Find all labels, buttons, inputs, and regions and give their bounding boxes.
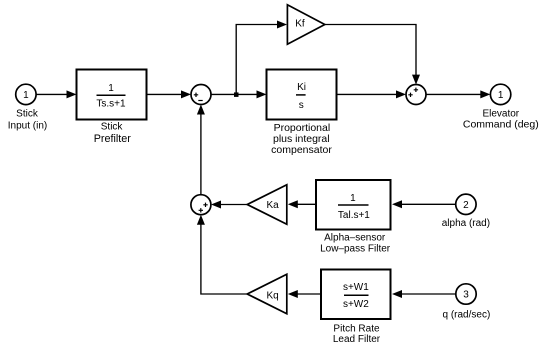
sum junction S1 (+ left, - bottom) xyxy=(191,85,211,105)
svg-text:Tal.s+1: Tal.s+1 xyxy=(338,210,370,221)
svg-text:s+W2: s+W2 xyxy=(343,299,369,310)
svg-text:Kq: Kq xyxy=(266,290,278,301)
wire: Ki/s to sum2 xyxy=(337,90,407,98)
svg-text:Lead Filter: Lead Filter xyxy=(333,334,381,345)
wire: sum2 to output port xyxy=(426,90,490,98)
wire: branch up to Kf gain xyxy=(236,21,287,95)
gain Ka (triangle pointing left) xyxy=(247,185,287,224)
block: Ki/s Proportional plus integral compensator xyxy=(267,70,337,156)
svg-text:Ki: Ki xyxy=(297,82,306,93)
input port 2 "alpha (rad)" xyxy=(442,194,490,229)
wire: port1 to Stick Prefilter xyxy=(36,90,76,98)
svg-text:1: 1 xyxy=(350,193,356,204)
input port 3 "q (rad/sec)" xyxy=(443,284,491,321)
sum junction S2 (+ top, + left) xyxy=(406,85,426,105)
svg-text:Low–pass Filter: Low–pass Filter xyxy=(320,244,391,255)
gain Kf (triangle pointing right) xyxy=(287,5,324,44)
svg-text:Command (deg): Command (deg) xyxy=(463,119,539,131)
block: Alpha-sensor Low-pass Filter 1/(Tal.s+1) xyxy=(316,180,391,255)
sum junction S3 (+ right, + bottom) xyxy=(191,195,211,215)
wire: Ka to sum3 xyxy=(211,201,247,209)
wire: sum1 to Ki/s block xyxy=(211,90,267,98)
svg-text:s: s xyxy=(299,100,304,111)
svg-text:Ka: Ka xyxy=(266,200,279,211)
svg-text:1: 1 xyxy=(23,90,29,101)
svg-text:s+W1: s+W1 xyxy=(343,282,369,293)
block: Stick Prefilter 1/(Ts.s+1) xyxy=(77,70,147,146)
wire: Pitch Rate block to Kq xyxy=(288,290,321,298)
svg-text:2: 2 xyxy=(463,200,469,211)
svg-text:Alpha–sensor: Alpha–sensor xyxy=(324,232,386,243)
svg-text:alpha (rad): alpha (rad) xyxy=(442,218,490,229)
gain Kq (triangle pointing left) xyxy=(247,274,287,313)
svg-text:Pitch Rate: Pitch Rate xyxy=(333,324,380,335)
wire: port3 to Pitch Rate block xyxy=(392,290,456,298)
wire: Kf to sum2 (right, then down) xyxy=(325,25,420,85)
wire: sum3 up to sum1 xyxy=(197,105,205,195)
wire: Kq left then up to sum3 xyxy=(197,215,247,294)
svg-text:Kf: Kf xyxy=(295,19,305,30)
svg-text:1: 1 xyxy=(108,83,114,94)
svg-text:3: 3 xyxy=(463,290,469,301)
svg-text:Prefilter: Prefilter xyxy=(94,133,132,145)
svg-text:Ts.s+1: Ts.s+1 xyxy=(96,99,126,110)
svg-text:Stick: Stick xyxy=(16,109,39,120)
svg-text:q (rad/sec): q (rad/sec) xyxy=(443,310,491,321)
svg-text:Input (in): Input (in) xyxy=(8,121,47,132)
block: Pitch Rate Lead Filter (s+W1)/(s+W2) xyxy=(321,270,391,346)
wire: Alpha-sensor block to Ka xyxy=(288,200,316,208)
output port 1 "Elevator Command (deg)" xyxy=(463,84,539,130)
svg-text:Stick: Stick xyxy=(101,122,124,133)
svg-text:compensator: compensator xyxy=(271,144,332,156)
input port 1 "Stick Input (in)" xyxy=(8,84,47,131)
wire: Stick Prefilter to sum1 xyxy=(147,90,192,98)
svg-text:1: 1 xyxy=(498,90,504,101)
node: branch junction xyxy=(234,92,239,97)
wire: port2 to Alpha-sensor block xyxy=(392,200,456,208)
